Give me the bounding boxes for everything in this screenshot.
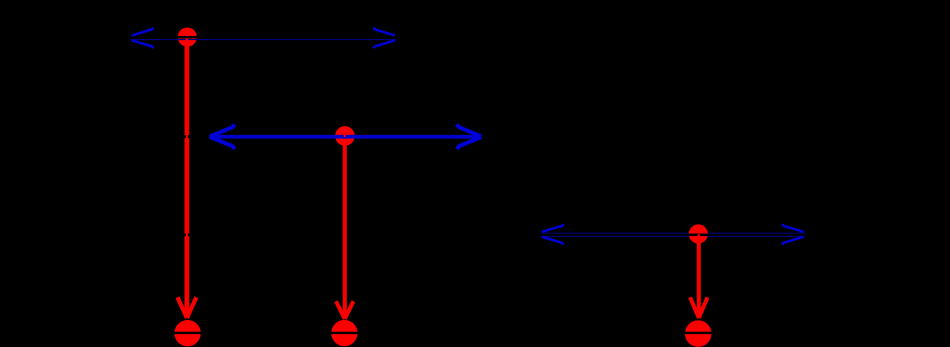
bottom event dot D2 — [331, 320, 357, 346]
interval arrow B1 right head (blue) — [373, 28, 395, 48]
interval arrow B3 shaft (navy, row 3) — [540, 233, 805, 237]
projection arrow A3 head (red barbs) — [690, 297, 707, 318]
interval arrow B2 right head (blue) — [457, 125, 482, 149]
red stub through row-3 line at dot E3 — [698, 234, 700, 236]
interval arrow B3 left head (blue) — [542, 224, 564, 244]
projection arrow A1 head (red barbs) — [178, 297, 197, 318]
bottom event dot D3 — [685, 320, 712, 347]
timeline row 3 left segment (black line, crosses arrow A1) — [95, 234, 535, 237]
interval arrow B2 shaft (thick blue, over dot E2) — [209, 135, 481, 139]
interval arrow B1 left head (blue) — [132, 28, 154, 48]
bottom timeline (black line over bottom dots) — [95, 332, 940, 334]
interval arrow B1 shaft (thin navy) — [130, 39, 396, 40]
interval arrow B3 right head (blue) — [782, 224, 804, 244]
event dot E2 (row 2) — [335, 126, 355, 146]
arrow A1 thin red core at row-3 crossing — [186, 234, 188, 237]
event dot E3 (row 3) — [689, 224, 708, 243]
red stub through row-1 lines at dot E1 — [186, 38, 188, 41]
timeline row 2 (black line, crosses arrow A1) — [110, 135, 495, 138]
timeline row 1 (black line, visible only over dot E1) — [110, 36, 420, 39]
event dot E1 (row 1) — [178, 27, 197, 46]
bottom event dot D1 — [174, 320, 200, 346]
red stub through row-2 blue shaft at dot E2 — [344, 135, 346, 137]
arrow A1 thin red core at row-2 crossing — [186, 135, 188, 138]
timeline row 3 right segment (black line over navy shaft and dot E3) — [535, 234, 940, 237]
projection arrow A2 head (red barbs) — [336, 301, 353, 319]
projection arrow A1 shaft (red, from row-1 dot down to bottom timeline) — [185, 37, 190, 318]
projection arrow A2 shaft (red) — [343, 136, 347, 319]
interval arrow B2 left head (blue) — [210, 125, 235, 149]
projection arrow A3 shaft (red) — [697, 236, 701, 318]
